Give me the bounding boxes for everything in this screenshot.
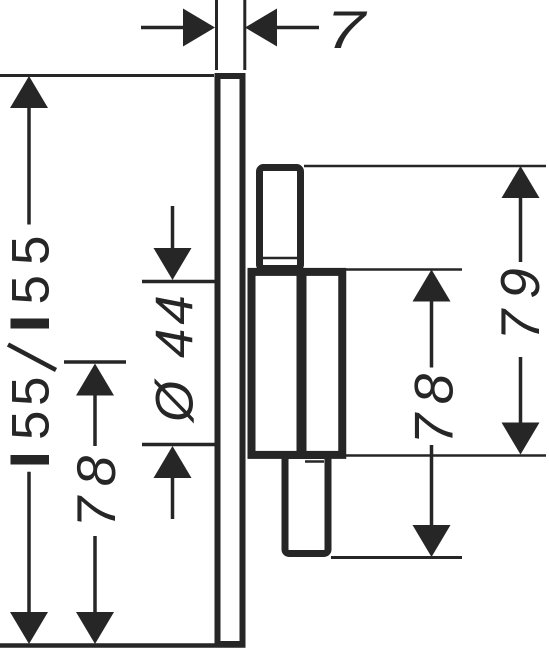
dim 78 left upper segment	[93, 393, 97, 446]
top knob K1 (upper control, side view)	[260, 168, 301, 269]
arrow dim7 left	[183, 9, 215, 47]
top knob inner line	[263, 257, 297, 260]
middle body K2 (main handle block, side view)	[252, 272, 343, 455]
dim 7 line left segment	[141, 26, 186, 30]
dim 78 right lower segment	[430, 445, 434, 527]
dim D44 upper tail	[171, 206, 175, 250]
extension line bottom (dim 155/78)	[0, 643, 246, 648]
dim D44 lower tail	[171, 476, 175, 519]
arrow dim78left down	[76, 612, 114, 644]
arrow dim79 down	[502, 423, 540, 455]
svg-text:78: 78	[403, 364, 465, 444]
svg-text:78: 78	[65, 445, 127, 527]
bottom knob inner line	[305, 460, 324, 463]
arrow dim7 right	[245, 9, 277, 47]
arrow D44 down	[154, 248, 192, 280]
extension line top left (dim 155)	[0, 74, 214, 77]
arrow dim78left up	[76, 364, 114, 396]
bottom knob K3 (lower control, side view)	[285, 456, 328, 554]
dim 79 lower segment	[519, 357, 523, 424]
arrow dim78right down	[413, 525, 451, 557]
svg-text:55: 55	[2, 226, 61, 305]
extension line above plate right (dim 7)	[243, 0, 246, 70]
dim 78 right upper segment	[430, 299, 434, 368]
extension line above plate left (dim 7)	[215, 0, 218, 70]
label 155/155 upper "1" bar	[11, 319, 50, 329]
svg-text:55: 55	[2, 372, 61, 440]
arrow dim155 up	[10, 76, 48, 108]
arrow dim155 down	[10, 612, 48, 644]
label 155/155 (plate size): lower "1" bar	[11, 455, 50, 465]
dim 155 line lower segment	[27, 472, 31, 614]
svg-text:Ø 44: Ø 44	[146, 291, 205, 424]
extension line right (dim 78 top)	[345, 268, 462, 271]
extension line right (dim 78 bottom)	[331, 556, 462, 559]
arrow dim79 up	[502, 166, 540, 198]
svg-text:7: 7	[326, 1, 368, 60]
tick centre of plate (dim 78 left)	[64, 360, 126, 364]
arrow D44 up	[154, 446, 192, 478]
plate P1 (wall plate 155x155x7, side view)	[218, 76, 243, 644]
arrow dim78right up	[413, 270, 451, 302]
extension line right top (dim 79)	[304, 165, 546, 168]
label 155/155 slash	[8, 345, 56, 371]
extension line right mid (dim 79 bottom)	[339, 454, 546, 457]
dim 79 upper segment	[519, 196, 523, 262]
tick D44 top	[142, 280, 215, 284]
tick D44 bottom	[142, 443, 215, 447]
dim 155 line upper segment	[27, 106, 31, 225]
dim 78 left lower segment	[93, 536, 97, 614]
inner vertical line (sleeve edge)	[297, 272, 307, 455]
svg-text:79: 79	[489, 257, 549, 340]
dim 7 line right segment	[274, 26, 319, 30]
